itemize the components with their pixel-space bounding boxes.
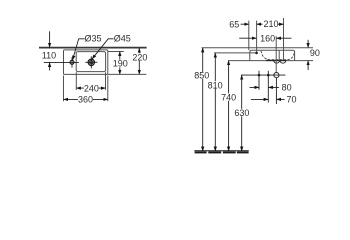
ext line D <box>283 18 285 60</box>
wall line <box>39 47 147 49</box>
ext line C / standpipe left <box>275 36 277 72</box>
floor hatch dash 4 <box>237 151 249 153</box>
dim 740 line <box>228 61 230 151</box>
drain hole crosshair <box>85 61 97 63</box>
leader Ø35 <box>73 39 85 60</box>
ext line B (tap hole) <box>256 21 258 52</box>
drain hole outer circle <box>88 59 94 65</box>
junction dot 2 <box>267 74 270 77</box>
svg-text:360: 360 <box>78 95 93 105</box>
trap centerline <box>241 74 286 76</box>
bowl inner rect <box>76 52 105 72</box>
top ext line (rim 850 ref) <box>202 47 313 49</box>
dim 160 left arrow <box>239 37 256 39</box>
floor hatch dash 2 <box>208 151 221 153</box>
svg-text:210: 210 <box>263 19 278 29</box>
dim 70 right arrow + leader <box>277 98 285 100</box>
tap hole circle <box>70 60 74 64</box>
svg-text:Ø35: Ø35 <box>84 34 101 44</box>
tap hole dot <box>255 52 258 55</box>
junction dot 1 <box>258 74 261 77</box>
floor hatch dash 3 <box>223 151 236 153</box>
drain bump left <box>274 61 280 64</box>
svg-text:110: 110 <box>42 51 56 61</box>
dim 65 leader+arrow <box>241 23 249 25</box>
dim 90 top arrow <box>307 40 309 48</box>
basin outline <box>250 50 295 60</box>
svg-text:240: 240 <box>84 83 99 93</box>
dim 360 line <box>64 98 108 100</box>
leader Ø45 <box>92 39 113 59</box>
svg-text:810: 810 <box>208 80 223 90</box>
dim 850 line <box>202 48 204 151</box>
svg-text:190: 190 <box>113 59 128 69</box>
svg-text:160: 160 <box>260 33 275 43</box>
trap vertical ext below circle <box>275 78 277 104</box>
bottom ext line <box>108 73 147 75</box>
dim 110 lower arrow <box>49 63 51 71</box>
ext line A (basin left edge) <box>248 21 250 51</box>
dim 70 left arrow <box>251 98 268 100</box>
bowl hidden dashed curve <box>261 51 295 60</box>
drain bump right <box>280 61 286 64</box>
trap circle <box>274 73 279 78</box>
floor hatch dash 1 <box>195 151 207 153</box>
standpipe right wall <box>278 51 280 61</box>
drain hole inner circle <box>90 61 93 64</box>
svg-text:80: 80 <box>282 82 292 92</box>
floor line <box>194 150 249 152</box>
tap hole vertical centerline <box>71 57 73 67</box>
dim 160 right arrow <box>277 37 292 39</box>
dim 210 left arrow <box>257 23 263 25</box>
dim 110 upper arrow <box>49 31 51 47</box>
basin outer rect <box>64 50 108 75</box>
tap height ext line <box>214 52 256 54</box>
dim 80 right arrow + leader <box>269 86 279 88</box>
svg-text:630: 630 <box>234 108 249 118</box>
dot2 vertical ext <box>267 71 269 103</box>
tap hole centerline ext <box>44 61 79 63</box>
svg-text:850: 850 <box>194 71 209 81</box>
dim 240 line <box>77 87 106 89</box>
ext line for 190 top <box>108 51 124 53</box>
dim 810 line <box>214 53 216 151</box>
svg-text:70: 70 <box>286 95 296 105</box>
dim 220 line <box>138 48 140 74</box>
svg-text:220: 220 <box>132 52 147 62</box>
dot1 vertical ext <box>258 71 260 90</box>
dim 90 bottom arrow <box>307 61 309 70</box>
bottom ext line / basin bottom <box>228 60 313 62</box>
dim 210 right arrow <box>277 23 283 25</box>
dim 630 line <box>241 75 243 150</box>
ext lines for 360 <box>63 76 65 102</box>
svg-text:90: 90 <box>310 48 320 58</box>
drain flange thick segment <box>266 59 287 61</box>
dim 190 line <box>119 52 121 75</box>
svg-text:65: 65 <box>229 19 239 29</box>
svg-text:740: 740 <box>221 93 236 103</box>
svg-text:Ø45: Ø45 <box>114 34 131 44</box>
ext lines for 240 <box>75 72 77 90</box>
dim 80 left arrow <box>250 86 259 88</box>
